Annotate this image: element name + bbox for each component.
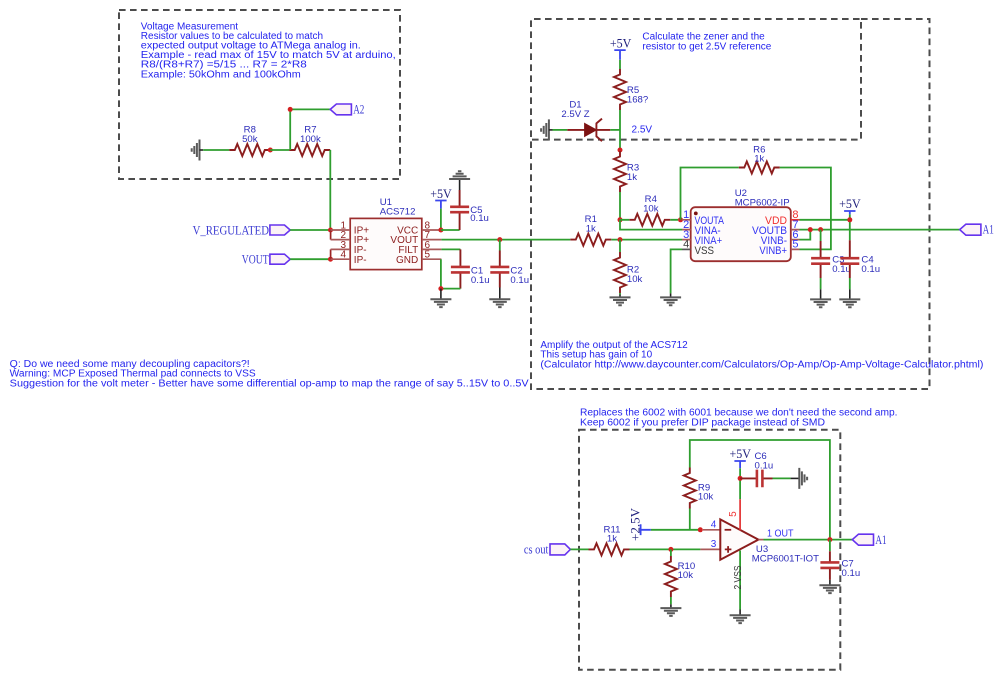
node U1 pin1 <box>328 228 333 233</box>
node A2 corner <box>288 107 293 112</box>
wire feedback VOUTA up <box>681 168 739 220</box>
svg-text:0.1u: 0.1u <box>861 264 880 275</box>
wire +2.5V to VIN- <box>651 529 700 531</box>
svg-text:3: 3 <box>711 539 717 550</box>
ground (above C5) <box>449 171 470 190</box>
resistor R9 10k <box>684 468 714 509</box>
wire +5V to C6 node <box>739 468 741 499</box>
power +5V (U2 VDD) <box>839 196 861 214</box>
capacitor C4 0.1u <box>840 240 880 278</box>
global label VOUT <box>242 252 290 267</box>
wire bridge pin3-pin4 <box>330 249 332 259</box>
wire U3 VSS down <box>739 551 741 610</box>
ground (U3 VSS) <box>730 610 751 624</box>
node R1/R2/VINA+ junction <box>618 237 623 242</box>
svg-text:10k: 10k <box>678 570 694 581</box>
capacitor C6 0.1u <box>740 451 773 487</box>
wire R5 to 2.5V node <box>619 110 621 150</box>
svg-text:GND: GND <box>396 255 418 266</box>
resistor R4 10k <box>629 194 670 226</box>
svg-text:100k: 100k <box>300 134 321 145</box>
capacitor C3 0.1u <box>811 230 851 278</box>
global label A1 (bottom) <box>852 532 886 547</box>
op-amp U3 MCP6001T-IOT <box>720 519 819 564</box>
power +5V (R5) <box>610 36 632 60</box>
wire VINA- elbow <box>620 220 682 230</box>
U2 pin4 stub <box>682 248 691 250</box>
wire R3 to R4 node <box>619 192 621 220</box>
wire U3 output <box>758 539 763 541</box>
wire R9 to VIN- rail <box>689 509 691 530</box>
svg-text:VINB+: VINB+ <box>759 245 787 257</box>
wire gnd to R8 <box>203 149 229 151</box>
wire FILT to C1 <box>441 248 460 250</box>
node VDD junction <box>847 217 852 222</box>
svg-text:VOUT: VOUT <box>242 252 269 267</box>
wire VOUTB to A1 <box>800 229 960 231</box>
capacitor C2 0.1u <box>490 240 529 288</box>
node VOUTA junction <box>678 217 683 222</box>
svg-text:Keep 6002 if you prefer DIP pa: Keep 6002 if you prefer DIP package inst… <box>580 418 825 429</box>
U1 left pin stubs <box>331 230 351 259</box>
wire R6 to VINB+ <box>780 168 831 250</box>
svg-text:V_REGULATED: V_REGULATED <box>193 222 269 237</box>
svg-text:1k: 1k <box>586 223 596 234</box>
wire divider tap to A2 corner <box>290 109 330 150</box>
svg-text:+5V: +5V <box>839 196 861 211</box>
wire +5V to VCC node <box>440 209 442 230</box>
wire R7 down to V_REGULATED rail <box>329 150 331 230</box>
power +2.5V <box>627 507 651 541</box>
note box: amplifier section <box>531 19 983 389</box>
wire VINB- feedback <box>800 230 811 240</box>
svg-text:0.1u: 0.1u <box>470 213 489 224</box>
svg-text:1k: 1k <box>607 534 617 545</box>
U1 pin numbers <box>340 220 430 260</box>
resistor R10 10k <box>665 549 695 597</box>
wire +5V to R5 <box>619 60 621 69</box>
U2 right pin stubs <box>791 230 800 250</box>
node R8/R7 junction <box>268 148 273 153</box>
svg-text:5: 5 <box>792 239 798 251</box>
resistor R11 1k <box>589 524 630 555</box>
resistor R3 1k <box>614 151 639 192</box>
wire C1 bottom to GND pin5 <box>441 259 461 288</box>
U1 right pin stubs <box>422 230 442 259</box>
node U1 pin4 <box>328 257 333 262</box>
note: decoupling question <box>10 359 529 390</box>
wire VSS to ground <box>671 249 682 293</box>
node GND junction <box>438 286 443 291</box>
note box: voltage measurement <box>119 10 400 179</box>
svg-text:1k: 1k <box>627 172 637 183</box>
U3 pin4 stub <box>703 529 720 531</box>
capacitor C5 0.1u <box>450 190 489 230</box>
svg-text:+2.5V: +2.5V <box>627 507 642 541</box>
U2 pin names <box>695 215 788 257</box>
svg-text:168?: 168? <box>627 94 648 105</box>
svg-text:MCP6001T-IOT: MCP6001T-IOT <box>752 554 819 565</box>
svg-text:5: 5 <box>425 250 431 261</box>
note box: 6001 replacement <box>579 408 898 670</box>
svg-text:(Calculator http://www.daycoun: (Calculator http://www.daycounter.com/Ca… <box>540 360 983 371</box>
wire R4 to pin1 <box>620 219 678 221</box>
svg-text:ACS712: ACS712 <box>380 207 416 218</box>
wire bridge pin1-pin2 <box>330 230 332 240</box>
resistor R2 10k <box>614 240 643 293</box>
svg-text:MCP6002-IP: MCP6002-IP <box>735 197 790 208</box>
svg-text:IP-: IP- <box>354 255 367 266</box>
U3 pin3 stub <box>700 548 720 550</box>
svg-text:+5V: +5V <box>610 36 632 51</box>
svg-text:resistor to get 2.5V reference: resistor to get 2.5V reference <box>642 41 771 52</box>
wire VOUT rail U1 pin7 to R1 <box>441 239 570 241</box>
node VINB- junction <box>808 227 813 232</box>
svg-text:Suggestion for the volt meter: Suggestion for the volt meter - Better h… <box>10 379 529 390</box>
capacitor C1 0.1u <box>451 249 490 288</box>
node 2.5V junction <box>618 148 623 153</box>
svg-text:0.1u: 0.1u <box>471 275 490 286</box>
svg-text:A2: A2 <box>353 101 364 116</box>
node VCC junction <box>438 228 443 233</box>
wire R1 input rail <box>611 239 682 241</box>
U2 pin numbers <box>683 209 798 251</box>
wire cs out to R11 <box>570 548 588 550</box>
U2 pin8 stub <box>791 219 800 221</box>
wire VDD rail <box>800 214 850 240</box>
resistor R8 50k <box>229 125 270 156</box>
node C2 tap <box>497 237 502 242</box>
node R3/R4/VINA- junction <box>618 217 623 222</box>
wire U3 feedback top <box>690 440 830 540</box>
ground (below C7) <box>819 580 840 593</box>
node R10/VIN+ junction <box>668 547 673 552</box>
diode D1 2.5V Z zener <box>561 100 610 142</box>
svg-text:1k: 1k <box>754 154 764 165</box>
ground (below C4) <box>839 278 860 307</box>
global label A2 <box>330 101 364 116</box>
power +5V (U3 VDD) <box>729 446 751 468</box>
ground (below R2) <box>610 293 631 305</box>
svg-text:+5V: +5V <box>729 446 751 461</box>
svg-text:10k: 10k <box>627 274 643 285</box>
global label cs out <box>524 542 571 557</box>
ground (U1 GND) <box>430 289 451 308</box>
ground (below C3) <box>810 278 831 307</box>
wire VCC node to C5 <box>441 229 460 231</box>
wire D1 cathode to 2.5V rail <box>610 129 620 131</box>
svg-text:4: 4 <box>711 519 717 530</box>
U2 left pin stubs <box>682 220 691 240</box>
ground (right of C6) <box>773 468 808 489</box>
ground (below R10) <box>660 597 681 616</box>
svg-text:5: 5 <box>728 511 739 517</box>
svg-text:+5V: +5V <box>430 186 452 201</box>
op-amp U2 MCP6002-IP body <box>691 188 791 261</box>
power +5V (U1 VCC) <box>430 186 452 209</box>
svg-text:10k: 10k <box>698 492 714 503</box>
svg-text:Example: 50kOhm and 100kOhm: Example: 50kOhm and 100kOhm <box>141 69 301 80</box>
node VDD/C6 junction <box>738 476 743 481</box>
svg-text:4: 4 <box>340 250 346 261</box>
capacitor C7 0.1u <box>820 540 860 580</box>
resistor R7 100k <box>289 125 330 156</box>
svg-text:1 OUT: 1 OUT <box>767 529 794 540</box>
svg-text:2 VSS: 2 VSS <box>733 565 744 589</box>
svg-text:50k: 50k <box>242 134 258 145</box>
resistor R5 168? <box>614 69 648 110</box>
svg-text:4: 4 <box>683 239 689 251</box>
U3 pin5 stub VDD <box>739 499 741 530</box>
resistor R1 1k <box>570 214 611 246</box>
U1 pin names <box>354 226 418 266</box>
wire VOUT to U1 pin4 <box>290 258 330 260</box>
node C7 tap <box>827 537 832 542</box>
global label V_REGULATED <box>193 222 291 237</box>
svg-text:0.1u: 0.1u <box>755 460 774 471</box>
node R9/VIN- junction <box>698 527 703 532</box>
svg-text:2.5V: 2.5V <box>632 124 653 135</box>
svg-text:0.1u: 0.1u <box>832 264 851 275</box>
svg-text:10k: 10k <box>643 204 659 215</box>
wire V_REGULATED to U1 pin1 <box>290 229 330 231</box>
resistor R6 1k <box>739 144 780 173</box>
svg-text:A1: A1 <box>875 532 886 547</box>
op-amp U1 ACS712 body <box>350 197 422 270</box>
svg-text:VSS: VSS <box>695 245 715 257</box>
svg-text:2.5V Z: 2.5V Z <box>561 109 589 120</box>
ground (divider) <box>192 140 204 161</box>
ground (below C2) <box>489 288 510 308</box>
wire output to A1 <box>764 539 853 541</box>
svg-text:0.1u: 0.1u <box>842 568 861 579</box>
svg-text:0.1u: 0.1u <box>510 275 529 286</box>
ground (zener anode) <box>541 119 552 140</box>
global label A1 <box>960 222 994 237</box>
node C3 tap <box>818 227 823 232</box>
wire R11 to VIN+ <box>630 548 701 550</box>
svg-text:cs out: cs out <box>524 542 549 557</box>
wire R8 to R7 <box>270 149 289 151</box>
svg-text:A1: A1 <box>983 222 994 237</box>
ground (U2 VSS) <box>660 293 681 305</box>
wire gnd to D1 <box>553 129 568 131</box>
